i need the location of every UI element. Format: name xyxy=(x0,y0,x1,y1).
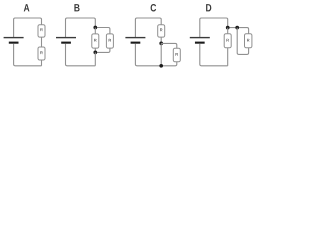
wire: C below battery to bottom wire xyxy=(135,44,161,66)
resistor box C1 xyxy=(158,25,165,37)
resistor box D1 xyxy=(224,34,231,48)
wire: A between boxes xyxy=(41,37,43,47)
battery cell A: short thick plate xyxy=(9,42,19,44)
resistor box A1 xyxy=(38,25,45,37)
wire: D left vertical + top wire down to junction1 xyxy=(200,18,228,37)
label A xyxy=(24,4,30,11)
battery cell B: long plate xyxy=(56,37,76,38)
wire: D box1 down to bottom wire xyxy=(227,48,229,66)
resistor box B2 xyxy=(106,34,113,48)
value label R in B2 xyxy=(109,39,111,42)
battery cell A: long plate xyxy=(4,37,24,38)
wire: C middle vertical (short-circuit link) xyxy=(160,43,162,65)
wire: C box1 to middle junction xyxy=(160,37,162,43)
wire: C branch right into box2 xyxy=(161,43,177,48)
value label R in C2 xyxy=(176,53,178,56)
wire: A below battery to bottom-left corner xyxy=(14,44,42,66)
resistor box B1 xyxy=(92,34,99,48)
resistor box C2 xyxy=(173,48,180,61)
wire: D below battery to bottom wire xyxy=(200,44,228,66)
node: B top junction dot xyxy=(93,26,97,30)
battery cell C: short thick plate xyxy=(131,42,141,44)
label D xyxy=(206,4,211,11)
value label R in D1 xyxy=(227,39,229,42)
wire: A loop (left vertical, top wire, right branch top) xyxy=(14,18,42,37)
value label R in A2 xyxy=(40,51,42,54)
background xyxy=(0,0,256,73)
wire: B below battery to bottom wire xyxy=(66,44,96,66)
value label R in D2 xyxy=(247,39,249,42)
resistor box D2 xyxy=(245,34,252,48)
battery cell D: short thick plate xyxy=(195,42,205,44)
wire: D middle vertical from junction2 down and U-link to box2 bottom xyxy=(237,28,248,55)
wire: A box2 to bottom wire xyxy=(41,60,43,66)
wire: B top bus to right branch xyxy=(95,28,110,34)
wire: B box2 down and lower bus to junction xyxy=(95,48,110,52)
wire: B left vertical + top wire down to junction xyxy=(66,18,96,37)
node: C middle junction dot xyxy=(159,42,163,46)
value label R in C1 xyxy=(160,29,162,32)
wire: B junction down into box1 xyxy=(94,28,96,34)
wire: C left vertical + top wire into box1 xyxy=(135,18,161,37)
node: B lower junction dot xyxy=(93,51,97,55)
battery cell D: long plate xyxy=(190,37,210,38)
wire: D top bus junction1 to junction2 to right branch xyxy=(228,28,249,34)
wire: D junction1 down into box1 xyxy=(227,28,229,34)
value label R in A1 xyxy=(40,28,42,31)
battery cell B: short thick plate xyxy=(61,42,71,44)
label C xyxy=(151,4,157,12)
value label R in B1 xyxy=(94,39,96,42)
node: C bottom junction dot xyxy=(159,64,163,68)
resistor box A2 xyxy=(38,47,45,60)
node: D junction dot 1 xyxy=(226,26,230,30)
label B xyxy=(74,4,79,11)
wire: B box1 down to lower junction xyxy=(94,48,96,52)
wire: B lower junction to bottom wire xyxy=(94,52,96,65)
node: D junction dot 2 xyxy=(235,26,239,30)
battery cell C: long plate xyxy=(125,37,145,38)
wire: C box2 down to bottom wire corner xyxy=(161,62,177,66)
